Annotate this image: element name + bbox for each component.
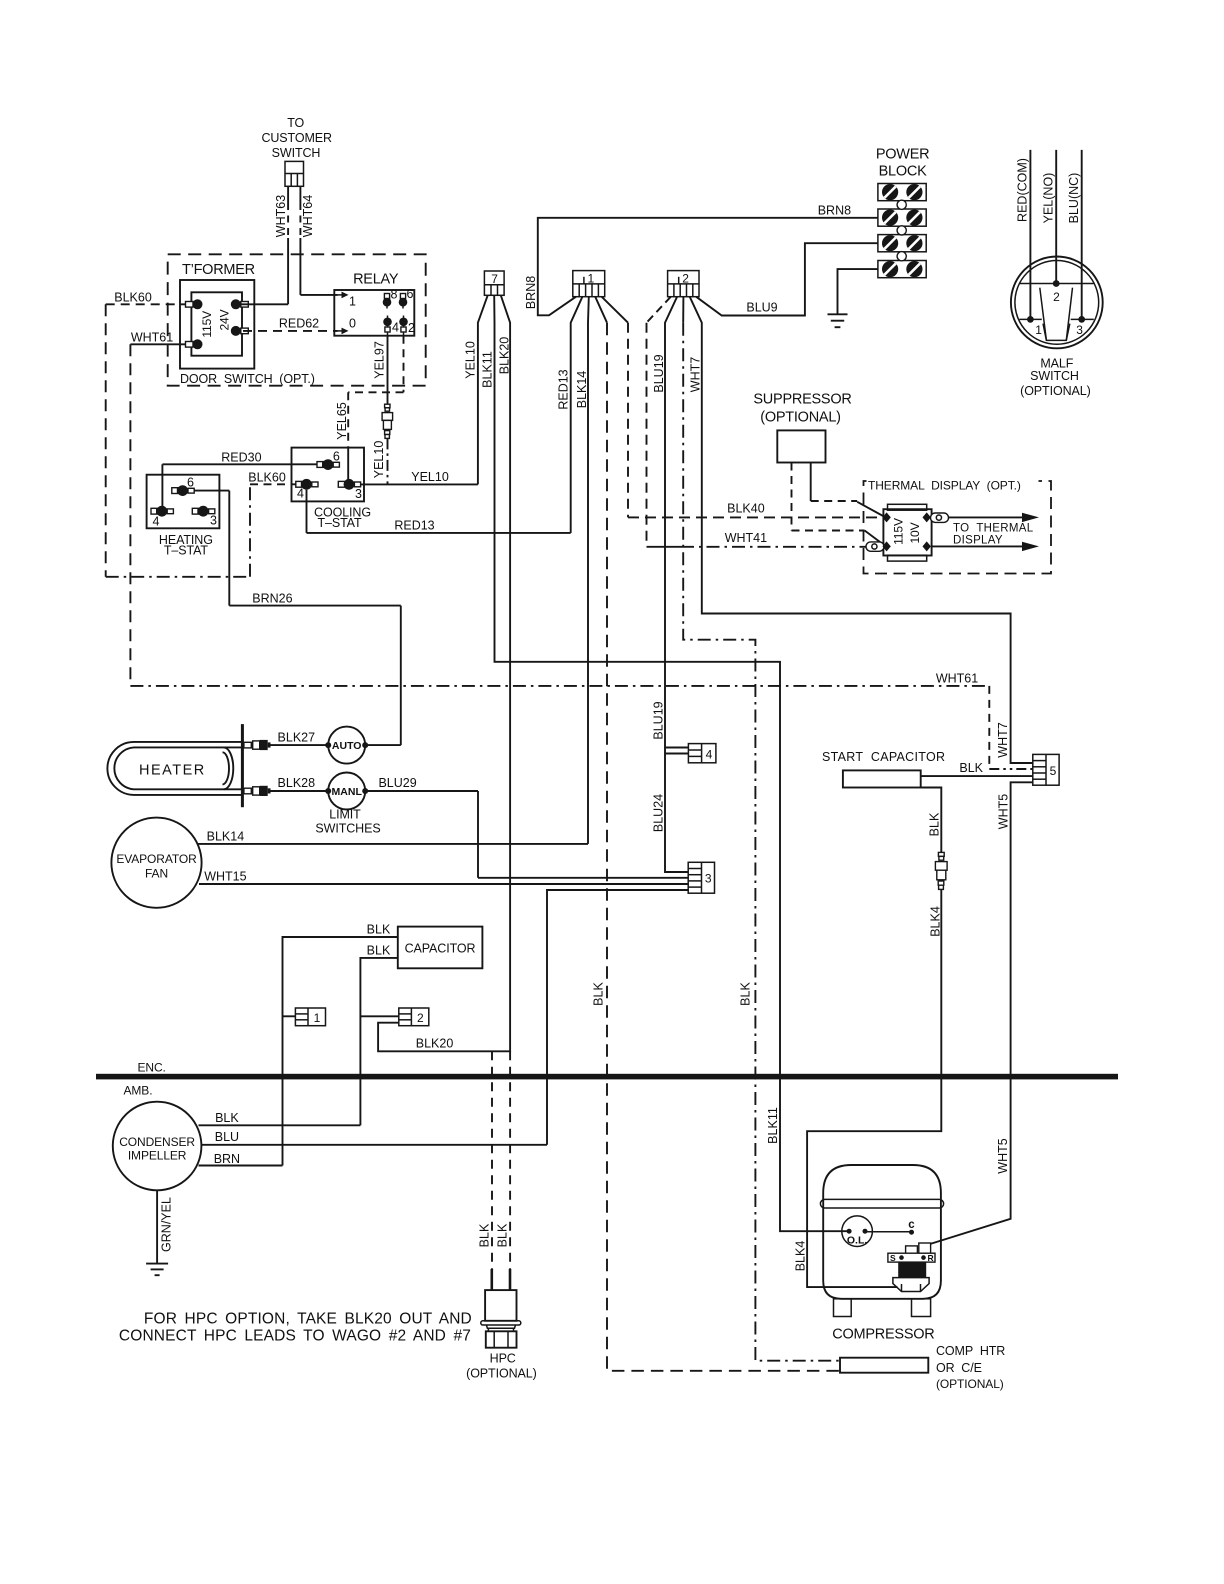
comp heater element — [840, 1358, 928, 1373]
svg-text:BLU29: BLU29 — [378, 776, 416, 790]
pin heating 3 — [192, 506, 217, 528]
switch MALF wires RED(COM) YEL(NO) BLU(NC) — [1030, 150, 1081, 320]
svg-text:YEL97: YEL97 — [373, 341, 387, 379]
pin T'FORMER 24V top — [231, 299, 249, 309]
pin relay 6 — [399, 287, 414, 309]
svg-text:AMB.: AMB. — [124, 1084, 153, 1098]
svg-text:WHT64: WHT64 — [301, 195, 315, 237]
pin relay 1 — [334, 292, 356, 309]
svg-text:SWITCH: SWITCH — [1030, 369, 1079, 383]
compressor foot left — [834, 1299, 852, 1317]
connector CUSTOMER SWITCH plug — [285, 161, 304, 186]
svg-text:RED(COM): RED(COM) — [1016, 158, 1030, 222]
connector WAGO 5 — [1033, 754, 1059, 785]
wire connector3 to condenser BLU — [547, 890, 688, 1145]
svg-text:WHT15: WHT15 — [204, 870, 246, 884]
wire BRN condenser — [199, 1165, 283, 1167]
wire WHT61 long horizontal run — [130, 686, 1032, 769]
svg-text:YEL10: YEL10 — [372, 441, 386, 479]
svg-text:SWITCH: SWITCH — [272, 146, 321, 160]
svg-text:BLK: BLK — [215, 1111, 239, 1125]
fan CONDENSER IMPELLER — [113, 1102, 202, 1191]
svg-text:0: 0 — [349, 317, 356, 331]
svg-text:10V: 10V — [908, 522, 922, 543]
svg-text:3: 3 — [705, 872, 712, 886]
svg-text:BRN: BRN — [214, 1152, 240, 1166]
wire BLU9 from WAGO2 to power block — [696, 243, 878, 315]
svg-text:BLK60: BLK60 — [114, 291, 152, 305]
pin relay 4 — [383, 316, 399, 336]
svg-text:WHT61: WHT61 — [131, 331, 173, 345]
svg-text:POWER: POWER — [876, 147, 930, 163]
pin cooling 4 — [296, 479, 318, 501]
wire WHT61 from transformer to left — [130, 344, 185, 686]
wire suppressor right lead — [811, 463, 884, 517]
wire BLK40 from WAGO1 to thermal display — [602, 297, 882, 518]
svg-text:1: 1 — [349, 295, 356, 309]
boundary ENC / AMB thick line — [96, 1061, 1118, 1098]
terminal C — [908, 1219, 915, 1235]
svg-text:1: 1 — [588, 272, 595, 286]
overload O.L. — [842, 1216, 873, 1247]
svg-text:OR C/E: OR C/E — [936, 1361, 982, 1375]
svg-text:(OPTIONAL): (OPTIONAL) — [466, 1367, 537, 1381]
wire BLK capacitor lower — [360, 958, 397, 1125]
svg-text:5: 5 — [1050, 764, 1057, 778]
note FOR HPC OPTION text — [119, 1311, 472, 1345]
svg-text:IMPELLER: IMPELLER — [128, 1149, 187, 1163]
wire RED13 cooling pin4 down and right — [307, 490, 571, 533]
svg-text:1: 1 — [314, 1011, 321, 1025]
wire BLK28 to MANL — [271, 790, 329, 792]
enclosure THERMAL DISPLAY (OPT.) dashed box — [864, 477, 1052, 574]
arrow to thermal display top — [949, 513, 1040, 522]
mounting tab right thermal transformer — [931, 513, 949, 522]
svg-text:GRN/YEL: GRN/YEL — [160, 1197, 174, 1252]
svg-text:DOOR SWITCH (OPT.): DOOR SWITCH (OPT.) — [180, 372, 315, 386]
svg-text:BLK: BLK — [367, 943, 391, 957]
svg-text:BLU19: BLU19 — [652, 701, 666, 739]
wire BLK11 from WAGO7 — [494, 295, 849, 1231]
pin T'FORMER 115V bottom — [186, 339, 203, 349]
svg-text:RELAY: RELAY — [353, 272, 399, 288]
svg-text:O.L.: O.L. — [847, 1235, 867, 1247]
pin relay 8 — [383, 288, 398, 309]
screw terminals power block — [882, 184, 923, 277]
ground symbol below power block — [828, 314, 848, 327]
connector WAGO 2 — [668, 271, 699, 297]
svg-text:BRN8: BRN8 — [524, 276, 538, 309]
svg-text:4: 4 — [153, 515, 160, 529]
wire BLK condenser — [199, 1124, 361, 1126]
svg-text:LIMIT: LIMIT — [329, 807, 361, 821]
label MALF SWITCH (OPTIONAL) — [1020, 357, 1091, 398]
wire HPC lead right dashed — [509, 1051, 511, 1269]
svg-text:BLK: BLK — [496, 1223, 510, 1247]
wire suppressor left lead — [792, 463, 885, 546]
svg-text:COMP HTR: COMP HTR — [936, 1344, 1005, 1358]
label LIMIT SWITCHES — [315, 807, 380, 835]
pin relay 2 — [399, 316, 415, 336]
wire power block row4 to ground — [838, 269, 878, 314]
wire BLK capacitor upper — [283, 937, 398, 1166]
svg-text:3: 3 — [1076, 323, 1083, 337]
svg-text:CUSTOMER: CUSTOMER — [261, 131, 332, 145]
svg-text:WHT5: WHT5 — [997, 794, 1011, 829]
compressor foot right — [912, 1299, 931, 1317]
wire BLU19 from WAGO2 to connector 4 — [665, 297, 688, 754]
svg-text:BRN8: BRN8 — [818, 204, 851, 218]
capacitor box — [398, 927, 483, 969]
wire GRN/YEL to ground — [156, 1190, 158, 1263]
svg-text:8: 8 — [391, 288, 398, 302]
svg-text:MANL: MANL — [332, 786, 363, 798]
connector 1 small — [295, 1008, 325, 1026]
wire AUTO to BRN26 riser — [365, 744, 401, 746]
wire BLK14 evap fan to riser — [198, 843, 589, 845]
wire BLK4 splice to compressor relay — [807, 889, 941, 1287]
compressor start relay — [888, 1243, 935, 1292]
svg-text:BLK20: BLK20 — [497, 337, 511, 375]
wire into connector 2 — [360, 1015, 398, 1017]
node TO CUSTOMER SWITCH — [261, 116, 332, 160]
wire BLK20 from WAGO7 — [378, 295, 510, 1051]
wire YEL10 splice down to yel10 junction — [387, 438, 389, 484]
wire YEL10 cooling pin3 to riser — [361, 483, 478, 485]
transformer thermal 115V/10V — [883, 504, 931, 561]
pin thermal bottom-left — [882, 541, 890, 551]
svg-text:RED30: RED30 — [221, 451, 261, 465]
svg-text:4: 4 — [297, 487, 304, 501]
wire BLK dashed from WAGO1 to comp htr — [595, 297, 840, 1371]
svg-text:(OPTIONAL): (OPTIONAL) — [936, 1377, 1004, 1391]
connector WAGO 4 — [688, 744, 716, 763]
wire O.L. to C terminal — [865, 1231, 912, 1233]
svg-text:FAN: FAN — [145, 867, 168, 881]
svg-text:T’FORMER: T’FORMER — [182, 262, 255, 278]
svg-text:WHT41: WHT41 — [725, 531, 767, 545]
pin cooling 6 — [317, 449, 340, 470]
pin relay 0 — [334, 317, 356, 335]
compressor body — [820, 1165, 943, 1299]
svg-text:YEL10: YEL10 — [464, 341, 478, 379]
svg-text:BLOCK: BLOCK — [879, 164, 927, 180]
pin cooling 3 — [338, 479, 362, 501]
svg-text:BLK4: BLK4 — [793, 1241, 807, 1272]
heater mounting bar — [241, 724, 244, 807]
svg-text:4: 4 — [392, 321, 399, 335]
wire into connector 1 — [283, 1015, 296, 1017]
wire HPC lead left dashed — [491, 1051, 493, 1269]
connector HPC plug — [481, 1269, 521, 1348]
svg-text:YEL65: YEL65 — [335, 402, 349, 440]
svg-text:BLU19: BLU19 — [652, 354, 666, 392]
svg-text:RED13: RED13 — [557, 369, 571, 409]
svg-text:2: 2 — [417, 1011, 424, 1025]
pin thermal top-left — [882, 512, 890, 522]
wire heating pin6 to BRN26 to AUTO switch — [194, 491, 401, 745]
svg-text:BLU(NC): BLU(NC) — [1067, 173, 1081, 224]
svg-text:BLK28: BLK28 — [278, 776, 316, 790]
limit switch AUTO — [325, 727, 368, 764]
svg-text:YEL10: YEL10 — [411, 470, 449, 484]
svg-text:RED62: RED62 — [279, 317, 319, 331]
svg-text:6: 6 — [187, 476, 194, 490]
svg-text:BLK: BLK — [478, 1223, 492, 1247]
pin T'FORMER 115V top — [186, 299, 203, 309]
label HPC (OPTIONAL) — [466, 1352, 537, 1381]
transformer T'FORMER — [180, 262, 255, 369]
svg-text:BLK40: BLK40 — [727, 502, 765, 516]
svg-text:T–STAT: T–STAT — [164, 544, 209, 558]
svg-text:YEL(NO): YEL(NO) — [1041, 173, 1055, 224]
connector WAGO 7 — [484, 271, 504, 295]
svg-text:WHT61: WHT61 — [936, 672, 978, 686]
arrow to thermal display bottom — [931, 542, 1039, 551]
wire BLK27 to AUTO — [271, 744, 329, 746]
mounting tab left thermal transformer — [866, 542, 884, 551]
switch MALF SWITCH body — [1011, 257, 1103, 349]
connector WAGO 1 — [573, 271, 605, 297]
wire BLU29 MANL to connector 3 — [365, 791, 688, 878]
svg-text:BLU24: BLU24 — [652, 794, 666, 832]
svg-text:WHT7: WHT7 — [689, 357, 703, 392]
svg-text:BLK: BLK — [928, 812, 942, 836]
wire WHT64 — [300, 186, 337, 295]
wire BLK60 from left to transformer — [106, 304, 186, 577]
wire BLK60 lower run to cooling pin4 — [106, 484, 296, 577]
svg-text:3: 3 — [355, 487, 362, 501]
svg-text:HEATER: HEATER — [139, 763, 206, 779]
relay U1 — [334, 272, 414, 336]
wire RED62 — [243, 330, 338, 332]
wire BLU24 connector4 to connector3 — [665, 754, 688, 873]
svg-text:BLK11: BLK11 — [766, 1107, 780, 1144]
svg-text:HPC: HPC — [490, 1352, 516, 1366]
wire RED30 heating pin4 to cooling pin6 — [162, 464, 317, 506]
svg-text:BLK: BLK — [959, 761, 983, 775]
svg-text:START CAPACITOR: START CAPACITOR — [822, 750, 945, 764]
pin heating 4 — [151, 506, 173, 529]
crimp connector BLK28 — [244, 786, 271, 796]
svg-text:THERMAL DISPLAY (OPT.): THERMAL DISPLAY (OPT.) — [868, 479, 1021, 493]
wire BLK14 from WAGO1 — [587, 297, 590, 844]
wire BLK start capacitor bottom lead — [921, 788, 942, 853]
svg-text:BRN26: BRN26 — [252, 591, 292, 605]
wire YEL97 relay pin4 down to splice — [387, 336, 389, 405]
wire YEL10 from WAGO7 — [478, 295, 488, 484]
ground symbol condenser — [146, 1264, 168, 1276]
svg-text:BLK20: BLK20 — [416, 1037, 454, 1051]
svg-text:BLK4: BLK4 — [929, 906, 943, 937]
wire YEL65 relay pin2 to cooling t-stat pin3 — [348, 336, 403, 485]
thermostat HEATING T-STAT — [147, 475, 220, 558]
wire WHT5 from connector 5 down to compressor — [930, 782, 1033, 1244]
label COMP HTR OR C/E (OPTIONAL) — [936, 1344, 1005, 1391]
svg-text:BLU: BLU — [215, 1130, 239, 1144]
svg-text:EVAPORATOR: EVAPORATOR — [116, 852, 197, 866]
svg-text:24V: 24V — [218, 309, 232, 330]
limit switch MANL — [325, 773, 368, 810]
terminal POWER BLOCK — [876, 147, 930, 278]
svg-text:WHT5: WHT5 — [996, 1138, 1010, 1173]
svg-text:WHT63: WHT63 — [274, 195, 288, 237]
svg-text:SWITCHES: SWITCHES — [315, 822, 380, 836]
suppressor box — [753, 392, 851, 463]
splice on YEL97/YEL10 — [382, 404, 393, 438]
start capacitor — [822, 750, 945, 788]
svg-text:BLK11: BLK11 — [480, 351, 494, 388]
svg-text:BLU9: BLU9 — [746, 301, 777, 315]
pin thermal top-right — [923, 512, 931, 522]
svg-text:DISPLAY: DISPLAY — [953, 535, 1003, 547]
wire WHT41 from WAGO2 to thermal display — [647, 297, 867, 547]
svg-text:TO THERMAL: TO THERMAL — [953, 523, 1034, 535]
svg-text:CONDENSER: CONDENSER — [119, 1135, 195, 1149]
svg-text:BLK: BLK — [367, 922, 391, 936]
svg-text:ENC.: ENC. — [138, 1061, 166, 1075]
wire RED13 from WAGO1 — [571, 297, 583, 533]
svg-text:RED13: RED13 — [394, 519, 434, 533]
label TO THERMAL DISPLAY — [953, 523, 1034, 547]
svg-text:2: 2 — [1053, 290, 1060, 304]
svg-text:BLK: BLK — [739, 982, 753, 1006]
svg-text:FOR HPC OPTION, TAKE BLK20 OUT: FOR HPC OPTION, TAKE BLK20 OUT AND — [144, 1311, 472, 1328]
svg-text:1: 1 — [1035, 323, 1042, 337]
svg-text:T–STAT: T–STAT — [317, 516, 362, 530]
wire BLK dash-dot from WAGO2 to comp htr — [683, 297, 840, 1361]
svg-text:BLK14: BLK14 — [575, 371, 589, 409]
enclosure DOOR SWITCH (OPT.) dashed box — [168, 254, 426, 386]
pin thermal bottom-right — [923, 541, 931, 551]
svg-text:S: S — [890, 1253, 896, 1263]
svg-text:CONNECT HPC LEADS TO WAGO #2 A: CONNECT HPC LEADS TO WAGO #2 AND #7 — [119, 1328, 471, 1345]
svg-text:AUTO: AUTO — [332, 740, 362, 752]
svg-text:CAPACITOR: CAPACITOR — [405, 942, 476, 956]
connector WAGO 3 — [688, 862, 714, 893]
svg-text:BLK27: BLK27 — [278, 730, 316, 744]
svg-text:BLK: BLK — [591, 982, 605, 1006]
svg-text:3: 3 — [210, 514, 217, 528]
wire BLK start capacitor to connector 5 — [921, 775, 1033, 777]
svg-text:115V: 115V — [200, 311, 214, 338]
svg-text:2: 2 — [682, 272, 689, 286]
wire WHT7 from WAGO2 to connector 5 — [690, 297, 1033, 763]
svg-text:c: c — [908, 1219, 915, 1231]
svg-text:BLK60: BLK60 — [248, 470, 286, 484]
svg-text:COMPRESSOR: COMPRESSOR — [832, 1327, 934, 1343]
svg-text:WHT7: WHT7 — [996, 722, 1010, 757]
svg-text:4: 4 — [706, 747, 713, 761]
pin T'FORMER 24V bottom — [231, 326, 249, 336]
wire BLU condenser — [201, 1144, 547, 1146]
pin heating 6 — [172, 476, 194, 497]
wire from 24V top to customer switch — [236, 303, 288, 305]
svg-text:(OPTIONAL): (OPTIONAL) — [760, 410, 840, 426]
wire WHT15 evap fan to connector 3 — [199, 883, 688, 885]
wire WHT63 — [287, 186, 289, 304]
svg-text:115V: 115V — [892, 518, 906, 545]
wire BRN8 from WAGO1 to power block — [538, 218, 878, 315]
svg-text:BLK14: BLK14 — [207, 830, 245, 844]
fan EVAPORATOR FAN — [111, 818, 201, 908]
connector 2 small — [399, 1008, 429, 1026]
svg-text:6: 6 — [407, 287, 414, 301]
svg-text:R: R — [928, 1253, 934, 1263]
svg-text:TO: TO — [287, 116, 304, 130]
svg-text:(OPTIONAL): (OPTIONAL) — [1020, 384, 1091, 398]
crimp connector BLK27 — [244, 740, 271, 750]
thermostat COOLING T-STAT — [292, 448, 371, 530]
heater element — [107, 742, 241, 795]
svg-text:7: 7 — [491, 272, 498, 286]
svg-text:SUPPRESSOR: SUPPRESSOR — [753, 392, 851, 408]
svg-text:2: 2 — [408, 321, 415, 335]
svg-text:6: 6 — [333, 449, 340, 463]
splice on start capacitor lead — [935, 852, 947, 889]
